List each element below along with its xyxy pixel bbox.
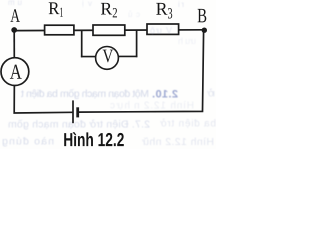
- svg-text:hực: hực: [110, 101, 130, 112]
- label R2: [101, 3, 112, 15]
- resistor R2: [93, 25, 125, 35]
- wire: voltmeter branch left vertical: [81, 30, 83, 57]
- svg-text:Hình 12.2 n: Hình 12.2 n: [134, 101, 194, 112]
- battery long plate: [72, 100, 74, 123]
- svg-text:ba điện trở: ba điện trở: [160, 118, 216, 130]
- node A dot: [11, 27, 17, 33]
- svg-text:V ưộ: V ưộ: [150, 26, 172, 36]
- wire: left vertical A to ammeter: [13, 30, 15, 58]
- resistor R3: [147, 24, 179, 34]
- wire: left vertical ammeter to bottom corner: [14, 86, 73, 114]
- battery short plate: [76, 107, 79, 117]
- label R3: [156, 3, 167, 15]
- bleed-through text line 3 (mirrored, faint): [8, 118, 216, 131]
- svg-text:Hình 12.2 nhữ: Hình 12.2 nhữ: [142, 136, 214, 148]
- node label B: [198, 9, 207, 22]
- svg-text:2.10.: 2.10.: [152, 89, 178, 101]
- voltmeter U2 circle: [96, 47, 119, 70]
- node B dot: [202, 28, 207, 33]
- bleed-through text line 1 (mirrored, blue): [21, 88, 215, 101]
- svg-text:ưu h: ưu h: [178, 36, 196, 46]
- ammeter U1 circle: [1, 58, 29, 86]
- bleed-through bottom-left corner: [2, 136, 54, 148]
- paper background: [0, 0, 216, 149]
- svg-text:2.7. Điện trở đoạn mạch gồm: 2.7. Điện trở đoạn mạch gồm: [8, 119, 150, 131]
- svg-text:nào đúng: nào đúng: [2, 136, 54, 148]
- resistor R1: [45, 25, 74, 35]
- wire: voltmeter branch left horizontal: [81, 56, 98, 58]
- wire: bottom right from battery to corner up to B: [78, 30, 204, 112]
- bleed-through top specks: [8, 0, 184, 19]
- voltmeter letter V: [103, 50, 114, 63]
- bleed-through specks inside R3 box: [150, 26, 196, 47]
- wire: top horizontal A to B: [14, 29, 204, 32]
- bleed-through bottom-right corner: [142, 136, 214, 148]
- svg-text:Một đoạn mạch gồm ba điện t: Một đoạn mạch gồm ba điện t: [21, 88, 149, 100]
- caption Hình 12.2: [64, 132, 124, 146]
- wire: voltmeter branch right vertical: [136, 30, 138, 57]
- bleed-through text line 2 (mirrored, faint): [110, 101, 194, 112]
- label R1: [49, 2, 60, 14]
- node label A: [10, 9, 20, 22]
- svg-text:um: um: [8, 0, 22, 7]
- ammeter letter A: [10, 65, 22, 79]
- svg-text:rở: rở: [207, 88, 215, 100]
- wire: voltmeter branch right horizontal: [117, 55, 137, 57]
